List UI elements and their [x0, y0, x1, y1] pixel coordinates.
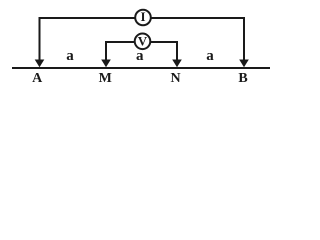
svg-text:N: N — [171, 71, 181, 86]
svg-text:M: M — [99, 71, 112, 86]
svg-text:B: B — [238, 71, 247, 86]
svg-text:I: I — [140, 9, 145, 24]
svg-text:A: A — [32, 71, 43, 86]
svg-text:a: a — [136, 48, 144, 64]
svg-text:a: a — [66, 48, 74, 64]
svg-text:a: a — [206, 48, 214, 64]
svg-text:V: V — [138, 34, 148, 49]
